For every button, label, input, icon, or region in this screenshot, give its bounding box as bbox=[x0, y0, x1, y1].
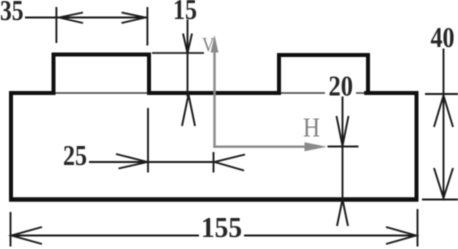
profile outline: body right edge bbox=[415, 91, 419, 201]
svg-text:40: 40 bbox=[431, 23, 455, 54]
dim 20 lower arrowhead (points up) bbox=[337, 200, 348, 227]
dim 25 left extension line bbox=[147, 108, 149, 173]
dim 40 upper arrowhead (points up) bbox=[434, 96, 453, 128]
dim 35 left arrowhead bbox=[59, 13, 83, 24]
right tab top edge bbox=[277, 53, 370, 57]
dim 155 left extension line bbox=[10, 212, 12, 247]
dim 15 extension line at tab top bbox=[152, 52, 204, 54]
seam line under right tab (right of 20 label) bbox=[356, 92, 364, 94]
dim 35 right extension line bbox=[146, 7, 148, 46]
dim 25 right extension line bbox=[213, 152, 215, 173]
H axis line bbox=[213, 145, 310, 147]
dim 40 dimension line bbox=[443, 49, 445, 199]
dim 15 dimension line bbox=[187, 20, 189, 97]
dim 40 bottom extension line bbox=[422, 199, 458, 201]
dim 25 right arrowhead (points left) bbox=[215, 155, 246, 171]
dim 20 upper arrowhead (points down) bbox=[337, 116, 349, 146]
svg-text:20: 20 bbox=[329, 72, 354, 103]
profile outline: body top edge middle segment bbox=[147, 91, 281, 95]
dim 35 left extension line bbox=[55, 7, 57, 43]
right tab right edge bbox=[366, 53, 370, 95]
profile outline: body left edge bbox=[9, 91, 13, 201]
svg-text:H: H bbox=[303, 113, 320, 143]
dim 155 left arrowhead (points left) bbox=[12, 227, 43, 244]
dim 40 top extension line bbox=[425, 93, 458, 95]
dim 15 lower arrowhead (points up) bbox=[182, 95, 195, 127]
left tab top edge bbox=[52, 53, 151, 57]
H axis arrowhead bbox=[305, 142, 328, 151]
seam line under right tab bbox=[281, 92, 325, 94]
svg-text:25: 25 bbox=[63, 141, 87, 172]
dim 155 right extension line bbox=[417, 209, 419, 247]
dim 35 right arrowhead bbox=[122, 13, 146, 24]
V axis arrowhead bbox=[211, 35, 219, 53]
dim 25 left arrowhead (points right) bbox=[116, 154, 148, 169]
profile outline: body bottom edge bbox=[9, 197, 418, 201]
right tab left edge bbox=[277, 53, 281, 95]
seam line under left tab bbox=[55, 92, 147, 94]
V axis line bbox=[213, 44, 215, 148]
svg-text:155: 155 bbox=[201, 213, 242, 244]
svg-text:V: V bbox=[202, 34, 215, 56]
dim 35 leader+dimension line bbox=[25, 17, 147, 19]
svg-text:35: 35 bbox=[0, 0, 24, 27]
profile outline: body top edge right segment bbox=[364, 91, 418, 95]
left tab right edge bbox=[147, 53, 151, 95]
svg-text:15: 15 bbox=[173, 0, 197, 26]
dim 155 dimension line right part bbox=[244, 235, 417, 237]
dim 155 dimension line left part bbox=[11, 235, 199, 237]
dim 25 leader+dimension line bbox=[89, 161, 215, 163]
dim 15 upper arrowhead (points down) bbox=[183, 34, 192, 54]
left tab left edge bbox=[52, 53, 56, 95]
dim 20 tick at H axis level bbox=[328, 146, 359, 148]
profile outline: body top edge left segment bbox=[9, 91, 55, 95]
dim 20 dimension line bbox=[342, 97, 344, 200]
dim 155 right arrowhead (points right) bbox=[386, 227, 416, 244]
dim 40 lower arrowhead (points down) bbox=[434, 168, 453, 198]
